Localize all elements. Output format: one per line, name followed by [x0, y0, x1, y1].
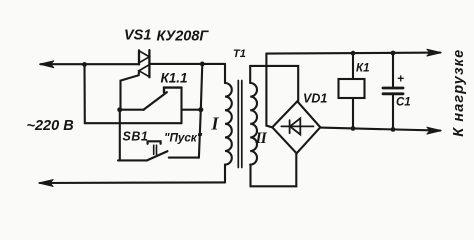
capacitor C1 bottom lead [392, 95, 394, 129]
wire SB1 left vertical [119, 110, 121, 161]
wire stub from riser to x=201 vertical [182, 109, 201, 111]
contact K1.1 blade [144, 92, 167, 110]
wire dc top bus [266, 53, 440, 54]
arrow to load top [427, 49, 441, 56]
svg-text:I: I [211, 114, 220, 134]
node junction at x=85 on top bus [82, 62, 87, 67]
svg-text:SB1: SB1 [123, 130, 149, 144]
wire secondary top lead to bridge top corner [250, 66, 298, 101]
diode inside VD1 [281, 125, 313, 127]
transformer T1 primary top lead [224, 64, 226, 83]
wire SB1 right vertical up to node [199, 110, 201, 158]
wire K1.1 blade pivot lead [120, 109, 144, 111]
capacitor C1 plates [383, 87, 403, 90]
wire dc bottom bus [320, 128, 440, 131]
transformer T1 winding I [225, 83, 232, 165]
wire gate lead of VS1 [121, 71, 140, 110]
button SB1 handle bar [148, 141, 161, 144]
node junction at x=202 on top bus [200, 62, 205, 67]
wire vertical x=201.5 from top bus to node [201, 64, 203, 110]
triac VS1 right bar [148, 50, 150, 77]
svg-text:КУ208Г: КУ208Г [157, 29, 210, 45]
button SB1 plunger stem [153, 145, 155, 154]
relay K1 bottom lead [352, 98, 354, 128]
wire bottom mains bus [40, 181, 225, 184]
svg-text:К1: К1 [356, 63, 369, 75]
svg-text:VS1: VS1 [124, 28, 151, 44]
node junction C1 bottom [391, 127, 396, 132]
triac VS1 left bar [138, 50, 140, 64]
transformer T1 core [237, 81, 239, 168]
node junction K1 top [351, 51, 356, 56]
transformer T1 winding II [250, 83, 257, 165]
arrow to load bottom [427, 127, 441, 134]
node junction x=201 y=110 [198, 107, 203, 112]
svg-text:К нагрузке: К нагрузке [451, 49, 467, 137]
svg-text:К1.1: К1.1 [161, 71, 188, 86]
wire drop from top bus x=85 down and right to K1.1 fixed side [85, 64, 182, 123]
wire top mains bus left [41, 63, 139, 65]
svg-text:+: + [397, 71, 404, 85]
svg-text:"Пуск": "Пуск" [164, 131, 203, 145]
svg-text:С1: С1 [396, 97, 411, 109]
arrow mains top-left [40, 61, 54, 68]
node junction K1 bottom [351, 126, 356, 131]
arrow mains bottom-left [39, 180, 53, 187]
capacitor C1 top lead [392, 53, 394, 87]
relay K1 top lead [352, 53, 354, 79]
wire secondary bottom lead to bridge bottom corner [251, 153, 297, 186]
wire top bus from triac to transformer [149, 63, 225, 65]
transformer T1 primary bottom lead [224, 165, 226, 183]
svg-text:Т1: Т1 [233, 48, 246, 60]
svg-text:~220 В: ~220 В [27, 118, 74, 134]
triac VS1 bottom triangle [139, 65, 149, 77]
wire SB1 bottom lead right [169, 157, 199, 159]
svg-text:II: II [255, 130, 268, 147]
triac VS1 top triangle [139, 51, 149, 63]
svg-text:VD1: VD1 [303, 91, 327, 105]
node gate junction [117, 107, 122, 112]
wire bridge left corner (plus) to top dc bus [266, 54, 272, 128]
contact K1.1 fixed rail [164, 88, 182, 93]
wire SB1 bottom lead left [118, 159, 147, 161]
bridge VD1 diamond [272, 101, 320, 153]
wire vertical fixed-contact riser x=181.5 [180, 88, 182, 124]
button SB1 blade [147, 151, 167, 160]
relay K1 coil box [339, 79, 365, 98]
node junction C1 top [391, 51, 396, 56]
